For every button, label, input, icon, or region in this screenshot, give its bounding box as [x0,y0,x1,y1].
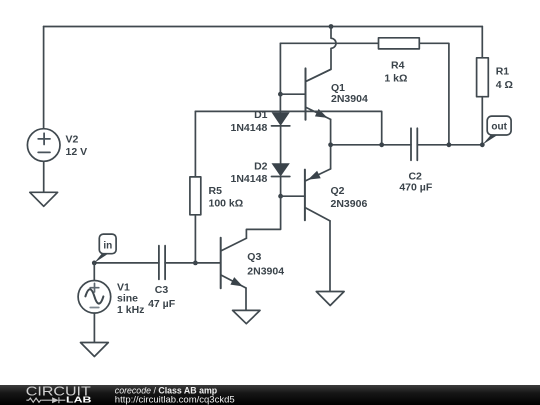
node Q3 base junction [193,261,198,266]
ground below Q3 [233,310,260,323]
wire Q1 emitter drop [330,119,332,144]
label V1 value [117,281,144,316]
wire output rail [331,144,411,146]
label C2 value [399,171,432,194]
wire V2 top drop [43,27,45,129]
label Q2 [331,185,368,210]
wire top rail [44,26,483,28]
wire bootstrap (R5 top to output) [195,111,381,144]
wire Q1 base [280,93,305,95]
label D2 value [231,160,268,185]
wire Q2 base [281,195,305,197]
node Q1 base junction [278,92,283,97]
wire R4 left (base node to R4) [280,42,378,44]
ground below V2 [30,192,58,206]
svg-text:LAB: LAB [66,395,92,404]
wire base-node vertical [279,43,281,112]
voltage source V1 [78,281,111,314]
resistor R4 [379,38,420,49]
wire V2 bottom [43,161,45,192]
resistor R5 [190,177,201,215]
logo doodle resistor-diode [26,397,65,403]
voltage source V2 [27,129,60,162]
wire V1 top [93,263,95,281]
label R4 value [384,60,407,85]
wire D2 to Q2 base node [280,177,282,197]
svg-text:http://circuitlab.com/cq3ckd5: http://circuitlab.com/cq3ckd5 [115,394,235,405]
wire Q3 emitter drop [245,288,247,310]
wire Q3 collector route [246,196,280,238]
transistor Q1 [306,68,331,119]
resistor R1 [477,58,489,97]
flag in [94,234,116,263]
label D1 value [231,109,268,134]
wire R5 top drop [194,111,196,176]
label Q3 [247,251,284,278]
node top-rail junction [329,24,334,29]
wire V1 bottom [93,313,95,342]
flag out [482,116,511,145]
diode D2 [272,163,290,176]
wire R4 right drop [419,43,449,145]
capacitor C3 [159,246,165,280]
label R5 value [209,185,244,210]
wire output rail right [417,144,482,146]
wire Q2 collector drop [329,221,331,292]
node bootstrap junction [379,142,384,147]
node out [480,142,485,147]
label V2 value [66,134,88,159]
wire C3 right [165,262,195,264]
node input junction [92,261,97,266]
wire input node to C3 [94,262,159,264]
wire R1 bottom [481,97,483,145]
wire R5 bottom [194,215,196,263]
wire Q1 collector riser with hop [306,27,336,82]
node R4 drop junction [447,142,452,147]
node Q1-Q2 emitter junction [328,142,333,147]
wire Q3 base [195,262,220,264]
ground below Q2 [316,292,344,306]
node Q2 base junction [278,194,283,199]
label R1 value [496,66,513,92]
transistor Q3 [221,238,247,288]
wire D1-D2 [280,126,282,163]
label C3 value [148,284,176,310]
wire Q2 emitter from output node [330,145,332,169]
capacitor C2 [411,128,417,160]
diode D1 [272,112,290,126]
branding bar [0,385,540,405]
ground below V1 [81,343,109,357]
label Q1 [331,82,368,105]
transistor Q2 [305,169,331,221]
wire R1 top drop [481,27,483,58]
